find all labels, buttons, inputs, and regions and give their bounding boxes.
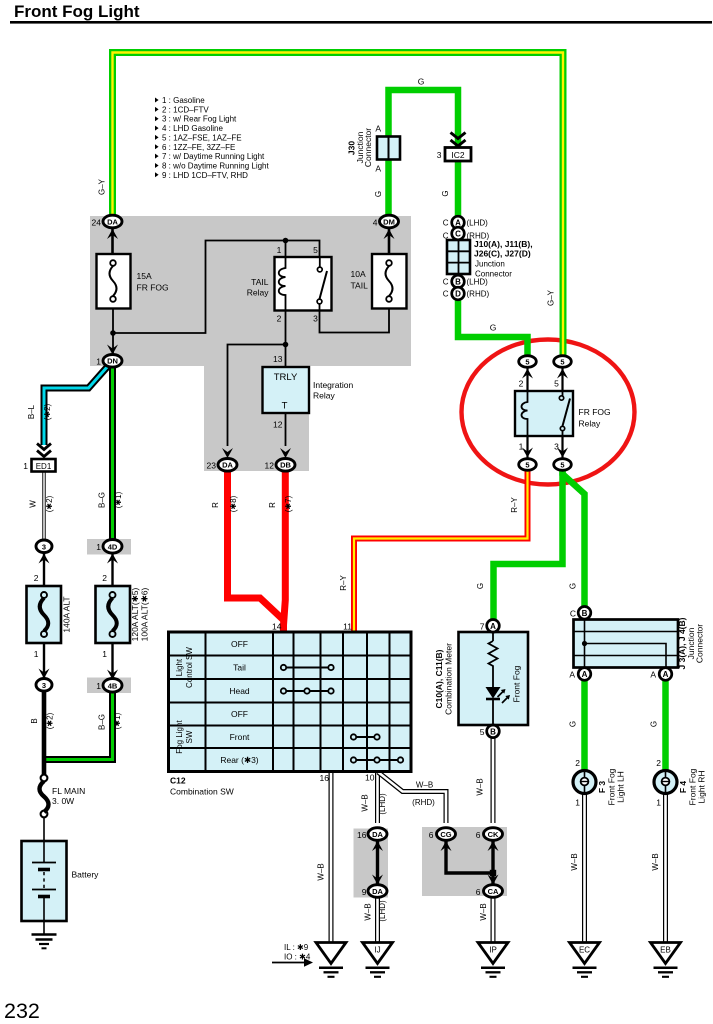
svg-text:J10(A), J11(B),: J10(A), J11(B), <box>474 239 533 249</box>
svg-text:DA: DA <box>372 830 383 839</box>
legend note markers <box>155 98 159 178</box>
svg-text:G: G <box>476 583 485 589</box>
connector circle A (LHD) <box>452 216 465 229</box>
contact Head row <box>281 688 334 693</box>
svg-text:A: A <box>375 124 381 134</box>
svg-text:Combination SW: Combination SW <box>170 787 234 797</box>
svg-text:IC2: IC2 <box>451 150 465 160</box>
svg-text:C12: C12 <box>170 776 186 786</box>
svg-text:OFF: OFF <box>231 709 248 719</box>
svg-text:8 : w/o Daytime Running Light: 8 : w/o Daytime Running Light <box>162 162 270 171</box>
svg-text:T: T <box>282 401 288 412</box>
svg-text:4D: 4D <box>108 542 118 551</box>
dart arrow up into DA24 <box>107 229 118 239</box>
dart arrow up into DM4 <box>384 229 395 239</box>
svg-text:13: 13 <box>273 354 283 364</box>
label B-G (*1) lower <box>98 712 123 730</box>
label W-B (RHD) horizontal <box>412 781 435 808</box>
svg-text:(✱2): (✱2) <box>45 495 54 512</box>
svg-text:A: A <box>663 670 669 679</box>
wire G from IC2 through J10 junction block to FR FOG relay pin 2 <box>458 160 528 357</box>
svg-text:A: A <box>650 670 656 680</box>
svg-text:6: 6 <box>476 887 481 897</box>
label FR FOG Relay <box>579 407 611 429</box>
wire TAIL relay pin 2 to integration relay pin 13 <box>285 310 287 367</box>
svg-text:EC: EC <box>579 946 590 955</box>
svg-text:Head: Head <box>229 686 250 696</box>
svg-text:5: 5 <box>313 245 318 255</box>
svg-text:232: 232 <box>4 999 40 1023</box>
wire G-Y from connector DA24 up across top down to FR FOG relay pin 5 <box>113 53 564 359</box>
gray highlight behind connector 4B <box>87 678 131 694</box>
svg-text:CK: CK <box>488 830 499 839</box>
wire TAIL relay pin 1 drop <box>285 241 287 258</box>
svg-text:B: B <box>455 278 461 287</box>
svg-text:2: 2 <box>519 379 524 389</box>
junction dot TAIL relay pin 2 <box>283 342 289 348</box>
svg-text:(LHD): (LHD) <box>378 900 387 922</box>
svg-text:C: C <box>443 290 449 299</box>
svg-text:3: 3 <box>42 681 46 690</box>
svg-text:R–Y: R–Y <box>339 575 348 591</box>
dart arrow down into oval5 bottom-right <box>557 448 568 458</box>
contact Tail row <box>281 665 334 670</box>
dart arrow up below oval 3 upper <box>39 554 50 564</box>
svg-text:1: 1 <box>519 442 524 452</box>
svg-text:A: A <box>582 670 588 679</box>
wire W-B front fog light RH to ground EB <box>663 793 668 943</box>
TAIL relay pin numbers <box>277 245 319 324</box>
svg-text:Front Fog Light: Front Fog Light <box>14 2 140 21</box>
junction dot fuse 15A / DN <box>110 330 116 336</box>
connector oval DN <box>103 355 122 368</box>
svg-text:OFF: OFF <box>231 639 248 649</box>
svg-text:G: G <box>418 77 425 87</box>
integration relay pin numbers 13 12 <box>273 354 283 430</box>
svg-text:R: R <box>211 502 220 508</box>
connector oval DB12 <box>276 459 295 472</box>
svg-text:Relay: Relay <box>247 288 269 298</box>
wire fuse 140A ALT to connector 3 lower <box>43 643 45 679</box>
ground bars EC <box>573 968 597 977</box>
ground bars EB <box>654 968 678 977</box>
svg-text:4B: 4B <box>108 681 118 690</box>
dart arrow up below DA16 <box>372 841 383 851</box>
connector oval CG <box>437 828 456 841</box>
fuse 15A FR FOG <box>97 254 131 309</box>
svg-text:R–Y: R–Y <box>510 497 519 513</box>
svg-text:3. 0W: 3. 0W <box>52 796 74 806</box>
svg-text:W–B: W–B <box>476 778 485 795</box>
svg-text:W–B: W–B <box>651 853 660 870</box>
relay TAIL <box>275 257 332 311</box>
svg-text:CA: CA <box>488 887 499 896</box>
svg-text:IJ: IJ <box>374 946 380 955</box>
label W (*2) <box>29 495 55 512</box>
svg-text:Battery: Battery <box>72 870 100 880</box>
battery <box>22 841 67 921</box>
svg-text:(✱2): (✱2) <box>46 712 55 729</box>
svg-text:14: 14 <box>272 622 282 632</box>
label B-L (*2) <box>27 403 52 420</box>
wire DA24 to fuse 15A <box>111 226 114 254</box>
svg-text:6: 6 <box>429 830 434 840</box>
ground bars IL/IO <box>319 968 343 977</box>
connector circle B (LHD) <box>452 275 465 288</box>
gray integration-relay extension background <box>204 366 309 471</box>
svg-text:W–B: W–B <box>361 794 370 811</box>
svg-text:W–B: W–B <box>570 853 579 870</box>
svg-text:Front Fog: Front Fog <box>512 665 522 702</box>
svg-text:DN: DN <box>107 357 118 366</box>
svg-text:C: C <box>443 219 449 228</box>
label C12 Combination SW <box>170 776 234 797</box>
wire B-L from DN to ED1 <box>44 366 108 445</box>
svg-text:2: 2 <box>102 573 107 583</box>
dart arrow down into oval5 bottom-left <box>522 448 533 458</box>
svg-text:G: G <box>650 721 659 727</box>
svg-text:1: 1 <box>575 798 580 808</box>
label W-B (LHD) pin10 column <box>361 793 388 815</box>
svg-text:Combination Meter: Combination Meter <box>444 643 454 715</box>
wire fuse 15A to DN <box>112 308 114 356</box>
relay oval 5 top-right <box>554 356 572 368</box>
wire TAIL relay pin 3 to fuse 10A <box>320 308 390 333</box>
svg-text:2: 2 <box>34 573 39 583</box>
label R (*7) <box>268 495 293 512</box>
fusible link FL MAIN <box>40 775 49 818</box>
svg-text:2: 2 <box>575 758 580 768</box>
dart arrow up into oval5 top-left <box>522 369 533 379</box>
svg-text:12: 12 <box>273 420 283 430</box>
junction connector J3/J4 block <box>574 620 679 668</box>
svg-text:3: 3 <box>437 150 442 160</box>
red highlight ellipse around FR FOG relay <box>462 340 635 485</box>
svg-text:FL MAIN: FL MAIN <box>52 786 85 796</box>
svg-text:(✱7): (✱7) <box>284 495 293 512</box>
svg-text:6 : 1ZZ–FE, 3ZZ–FE: 6 : 1ZZ–FE, 3ZZ–FE <box>162 143 235 152</box>
svg-text:Junction: Junction <box>475 260 505 269</box>
dart arrow down into DN <box>107 345 118 355</box>
ground IJ triangle <box>363 943 393 964</box>
svg-text:5 : 1AZ–FSE, 1AZ–FE: 5 : 1AZ–FSE, 1AZ–FE <box>162 133 242 142</box>
svg-text:D: D <box>455 290 461 299</box>
fuse 120A ALT <box>96 586 131 643</box>
svg-text:W–B: W–B <box>479 903 488 920</box>
switch row labels <box>220 639 258 765</box>
label J10 J11 J26 J27 junction connector <box>474 239 533 279</box>
connector circle A at J3 bottom-left <box>578 668 591 681</box>
svg-text:16: 16 <box>357 830 367 840</box>
svg-text:Front: Front <box>230 732 250 742</box>
dart arrow down into oval 3 lower <box>39 669 50 679</box>
integration relay TRLY <box>263 367 310 413</box>
wire W-B from combination switch pin 16 to ground <box>329 771 334 943</box>
wire branch to connector DA23 <box>228 345 286 447</box>
svg-text:DB: DB <box>280 461 291 470</box>
svg-text:B: B <box>490 727 496 736</box>
ground bars IJ <box>366 968 390 977</box>
svg-text:1: 1 <box>277 245 282 255</box>
svg-text:W–B: W–B <box>317 863 326 880</box>
title underline <box>10 21 712 24</box>
connector box ED1 <box>32 459 56 472</box>
svg-text:G: G <box>441 190 450 196</box>
svg-text:J26(C), J27(D): J26(C), J27(D) <box>474 249 531 259</box>
svg-text:TAIL: TAIL <box>251 277 269 287</box>
svg-text:EB: EB <box>660 946 671 955</box>
dart arrow down into DA9 <box>372 875 383 885</box>
connector circle B pin5 <box>487 725 500 738</box>
svg-text:B: B <box>30 718 39 723</box>
wire W-B front fog light LH to ground EC <box>582 793 587 943</box>
svg-text:Rear (✱3): Rear (✱3) <box>220 755 258 765</box>
svg-text:(RHD): (RHD) <box>467 290 490 299</box>
svg-text:W–B: W–B <box>416 781 433 790</box>
svg-text:10: 10 <box>365 773 375 783</box>
svg-text:120A ALT(✱5): 120A ALT(✱5) <box>130 587 140 641</box>
wire integration relay pin 12 to DB12 <box>285 413 287 446</box>
label Integration Relay <box>313 380 353 401</box>
svg-text:Integration: Integration <box>313 380 353 390</box>
svg-text:ED1: ED1 <box>36 462 52 471</box>
connector oval CA <box>484 885 503 898</box>
wire from FL MAIN to battery <box>43 817 45 841</box>
svg-text:15A: 15A <box>137 271 152 281</box>
svg-text:(LHD): (LHD) <box>467 278 489 287</box>
svg-text:G: G <box>374 191 383 197</box>
svg-text:C: C <box>443 278 449 287</box>
label J30 Junction Connector <box>347 128 374 167</box>
wire connector 3 to fuse 140A ALT <box>43 552 45 586</box>
svg-text:(✱1): (✱1) <box>114 491 123 508</box>
svg-text:C10(A), C11(B): C10(A), C11(B) <box>434 649 444 708</box>
svg-text:Light: Light <box>175 658 184 676</box>
junction dot TAIL relay pin 1 <box>283 238 289 244</box>
svg-text:5: 5 <box>560 358 564 367</box>
connector circle C (RHD) <box>452 227 465 240</box>
wire R-Y from FR FOG relay pin 1 to combination switch pin 11 <box>354 469 528 633</box>
connector box IC2 <box>445 148 471 162</box>
connector oval 4B <box>103 679 122 693</box>
battery ground symbol <box>32 935 57 949</box>
wire R from DB12 to combination switch pin 14 <box>284 469 286 633</box>
svg-text:R: R <box>268 502 277 508</box>
svg-text:3: 3 <box>42 542 46 551</box>
svg-text:F 4: F 4 <box>678 781 688 794</box>
svg-text:2: 2 <box>656 758 661 768</box>
label B-G (*1) upper <box>98 491 124 508</box>
chevron arrow into IC2 <box>451 133 466 147</box>
wire W-B (RHD) combination switch pin 10 to CG <box>378 772 446 823</box>
relay FR FOG <box>515 391 573 436</box>
svg-text:IL : ✱9: IL : ✱9 <box>284 943 309 952</box>
svg-text:(✱1): (✱1) <box>113 712 122 729</box>
label R (*8) <box>211 495 238 512</box>
connector circle A pin7 <box>487 620 500 633</box>
svg-text:3 : w/ Rear Fog Light: 3 : w/ Rear Fog Light <box>162 115 237 124</box>
gray highlight behind connector 4D <box>87 539 131 555</box>
connector oval CK <box>484 828 503 841</box>
svg-text:12: 12 <box>265 461 275 471</box>
svg-text:2 : 1CD–FTV: 2 : 1CD–FTV <box>162 105 209 114</box>
label 120A ALT 100A ALT <box>130 587 150 641</box>
gray highlight behind connectors CG/CK/CA <box>422 827 507 896</box>
wire G from J3 connector A to front fog light LH <box>581 679 588 772</box>
svg-text:1: 1 <box>34 649 39 659</box>
svg-text:16: 16 <box>320 773 330 783</box>
ground EC triangle <box>570 943 600 964</box>
svg-text:(RHD): (RHD) <box>412 798 435 807</box>
svg-text:C: C <box>455 230 461 239</box>
label 10A TAIL <box>351 269 369 291</box>
svg-text:Connector: Connector <box>363 128 373 167</box>
svg-text:Tail: Tail <box>233 663 246 673</box>
svg-text:Connector: Connector <box>695 624 705 663</box>
dart arrow up into oval5 top-right <box>557 369 568 379</box>
svg-text:(LHD): (LHD) <box>378 793 387 815</box>
svg-text:FR FOG: FR FOG <box>137 283 169 293</box>
label C10(A) C11(B) Combination Meter <box>434 643 454 715</box>
dart arrow down into DA23 <box>222 448 233 458</box>
svg-text:1 : Gasoline: 1 : Gasoline <box>162 96 205 105</box>
wire connector 4D to fuse 120A ALT <box>111 552 113 586</box>
svg-text:Fog Light: Fog Light <box>175 720 184 754</box>
wire G from J4 connector A to front fog light RH <box>662 679 669 772</box>
svg-text:G: G <box>490 323 497 333</box>
svg-text:1: 1 <box>23 461 28 471</box>
wire battery to ground <box>43 921 45 934</box>
dart arrow down into 4B <box>107 670 118 680</box>
svg-text:DA: DA <box>222 461 233 470</box>
junction connector J10 block <box>447 240 470 274</box>
svg-text:9 : LHD 1CD–FTV, RHD: 9 : LHD 1CD–FTV, RHD <box>162 171 248 180</box>
pin labels 14 11 16 10 <box>272 622 375 784</box>
svg-text:A: A <box>569 670 575 680</box>
svg-text:TAIL: TAIL <box>351 281 369 291</box>
svg-text:FR FOG: FR FOG <box>579 407 611 417</box>
junction dot CK/CG <box>490 870 496 876</box>
svg-text:1: 1 <box>102 649 107 659</box>
connector oval 4D <box>103 540 122 554</box>
combination meter block C10/C11 <box>459 632 529 725</box>
svg-text:Light LH: Light LH <box>616 771 626 803</box>
wire B-G from 4B to fusible link FL MAIN <box>45 692 113 760</box>
wire CG to junction with CK <box>446 840 493 873</box>
svg-text:4: 4 <box>373 218 378 228</box>
wire fuse 120A ALT to connector 4B <box>111 643 113 679</box>
relay oval 5 top-left <box>519 356 537 368</box>
fuse 140A ALT <box>27 586 62 643</box>
connector oval DA23 <box>218 459 237 472</box>
gray highlight behind connectors DA16/DA9 <box>354 829 389 898</box>
svg-text:Light RH: Light RH <box>697 770 707 803</box>
svg-text:7: 7 <box>480 622 485 632</box>
svg-text:3: 3 <box>313 314 318 324</box>
svg-text:(✱2): (✱2) <box>43 403 52 420</box>
svg-text:5: 5 <box>560 461 564 470</box>
ground IL/IO triangle <box>316 943 346 964</box>
dart arrow down into DB12 <box>280 448 291 458</box>
wire B from connector 3 to fusible link FL MAIN <box>42 690 47 776</box>
svg-text:140A ALT: 140A ALT <box>62 596 72 632</box>
label W-B (LHD) below DA9 <box>364 900 388 922</box>
svg-text:1: 1 <box>96 357 101 367</box>
svg-text:11: 11 <box>343 622 352 632</box>
connector oval 3 upper <box>36 540 52 553</box>
svg-text:6: 6 <box>476 830 481 840</box>
svg-text:G: G <box>569 721 578 727</box>
svg-text:DA: DA <box>372 887 383 896</box>
wire W-B combination meter pin 5 to CK <box>491 737 496 823</box>
wire W from ED1 to connector 3 <box>42 472 45 542</box>
connector oval DA24 <box>103 215 122 228</box>
dart arrow down into CA <box>488 875 499 885</box>
svg-text:Relay: Relay <box>579 419 601 429</box>
relay oval 5 bottom-right <box>554 459 572 471</box>
svg-text:SW: SW <box>185 730 194 743</box>
svg-text:10A: 10A <box>351 269 366 279</box>
svg-text:DM: DM <box>383 217 395 226</box>
label J3(A) J4(B) Junction Connector <box>677 617 705 669</box>
wire W-B CA to ground IP <box>491 896 496 943</box>
connector oval DA9 <box>368 885 387 898</box>
label Fog Light SW <box>175 720 194 754</box>
connector oval DA16 <box>368 828 387 841</box>
ground bars IP <box>481 968 505 977</box>
svg-text:B: B <box>582 609 588 618</box>
label Light Control SW <box>175 647 194 688</box>
connector circle D (RHD) <box>452 287 465 300</box>
wire FR FOG relay pin 1 to oval5 <box>526 436 528 459</box>
label FL MAIN 3.0W <box>52 786 85 806</box>
svg-text:(LHD): (LHD) <box>467 219 489 228</box>
connector oval DM4 <box>380 215 399 228</box>
svg-text:4 : LHD Gasoline: 4 : LHD Gasoline <box>162 124 223 133</box>
wire DA16 to DA9 <box>376 840 379 886</box>
svg-text:5: 5 <box>525 461 529 470</box>
svg-text:DA: DA <box>107 217 118 226</box>
gray relay-block background <box>90 216 411 366</box>
svg-text:G–Y: G–Y <box>547 289 556 306</box>
fuse 10A TAIL <box>372 254 407 309</box>
wire G from FR FOG relay pin 3 to combination meter pin 7 <box>494 470 563 620</box>
svg-text:C: C <box>570 609 576 619</box>
svg-text:TRLY: TRLY <box>274 372 298 383</box>
ground EB triangle <box>651 943 681 964</box>
FR FOG relay pin numbers <box>519 379 560 452</box>
svg-text:7 : w/ Daytime Running Light: 7 : w/ Daytime Running Light <box>162 152 265 161</box>
dart arrow up below 4D <box>107 554 118 564</box>
dart arrow up below CG <box>441 841 452 851</box>
wire W-B (LHD) DA9 to ground IJ <box>375 896 380 943</box>
label IL IO with arrow <box>272 943 313 967</box>
chevron arrow into ED1 <box>37 444 51 457</box>
svg-text:2: 2 <box>277 314 282 324</box>
wire W-B (LHD) combination switch pin 10 to DA16 <box>375 771 380 823</box>
svg-text:9: 9 <box>362 887 367 897</box>
svg-text:G: G <box>569 583 578 589</box>
svg-text:A: A <box>490 622 496 631</box>
svg-text:1: 1 <box>656 798 661 808</box>
wire branch fuse 15A output to TAIL relay pins 1 and 5 <box>113 241 320 334</box>
contact Rear row <box>351 757 403 762</box>
junction connector J30 <box>377 137 400 160</box>
svg-text:W–B: W–B <box>364 903 373 920</box>
wire relay oval5 to FR FOG relay pin 2 <box>526 366 528 391</box>
svg-text:5: 5 <box>480 727 485 737</box>
svg-text:A: A <box>375 164 381 174</box>
